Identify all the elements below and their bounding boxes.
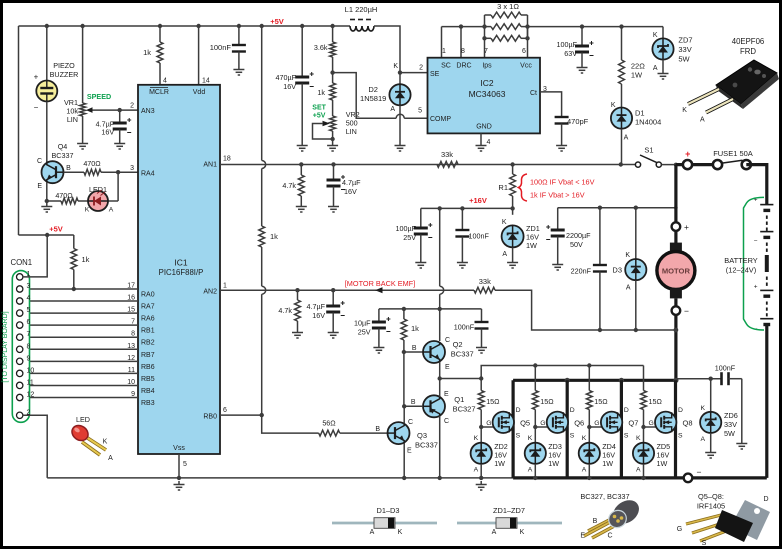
svg-text:(12–24V): (12–24V)	[726, 266, 756, 275]
wire piezo to Q4 collector	[46, 102, 48, 164]
svg-text:16V: 16V	[283, 82, 296, 91]
CON1 pin 10	[17, 370, 23, 376]
wire +16V to Q2 collector	[439, 208, 441, 286]
svg-text:−: −	[754, 238, 758, 245]
junction rail/RB0 pullup	[260, 24, 264, 28]
svg-text:Q5–Q8:: Q5–Q8:	[698, 492, 724, 501]
svg-text:4: 4	[27, 295, 31, 302]
junction ZD5/bus	[641, 476, 645, 480]
resistor 4.7k (AN2)	[295, 300, 301, 321]
resistor 1k (RA0 pullup)	[71, 249, 77, 270]
svg-text:3: 3	[27, 283, 31, 290]
capacitor 470uF 16V	[295, 77, 309, 83]
capacitor 4.7uF 16V (AN3)	[113, 123, 127, 129]
svg-text:COMP: COMP	[430, 116, 451, 123]
wire hop over D2 anode	[396, 114, 404, 118]
svg-text:A: A	[626, 285, 631, 292]
junction DRC	[459, 24, 463, 28]
wire CON1 to RB2	[23, 336, 138, 338]
junction ZD4/bus	[587, 476, 591, 480]
svg-text:22Ω: 22Ω	[631, 62, 645, 71]
svg-text:1: 1	[223, 283, 227, 290]
svg-text:Q5: Q5	[520, 419, 530, 428]
svg-text:A: A	[636, 467, 641, 474]
ground 100nF Vdd	[233, 66, 244, 75]
svg-text:4: 4	[487, 139, 491, 146]
transistor Q8 IRF1405	[655, 412, 676, 433]
wire driver supply row	[379, 308, 482, 310]
ground 10uF	[373, 344, 384, 353]
svg-text:RB0: RB0	[203, 413, 217, 420]
svg-text:S1: S1	[644, 146, 653, 155]
svg-text:A: A	[108, 455, 113, 462]
svg-text:PIEZO: PIEZO	[53, 61, 75, 70]
junction rail/22R	[619, 24, 623, 28]
junction gate bus	[479, 376, 483, 380]
wire Vdd stub	[198, 26, 200, 85]
svg-text:2200µF: 2200µF	[566, 231, 591, 240]
wire +5V to CON1/1k	[19, 234, 74, 236]
CON1 pin 8	[17, 346, 23, 352]
svg-text:K: K	[636, 435, 641, 442]
svg-text:C: C	[37, 158, 42, 165]
zener ZD1 16V 1W	[502, 225, 524, 247]
svg-text:3 x 1Ω: 3 x 1Ω	[497, 2, 519, 11]
svg-text:2: 2	[419, 65, 423, 72]
wire left +5V drop	[18, 26, 20, 235]
svg-text:A: A	[700, 436, 705, 443]
svg-text:Q7: Q7	[628, 419, 638, 428]
svg-text:3.6k: 3.6k	[314, 43, 328, 52]
ground VR1	[77, 140, 88, 149]
zener ZD2 16V 1W	[471, 443, 492, 464]
wire 4.7uF top	[119, 110, 121, 123]
svg-text:G: G	[594, 420, 599, 427]
transistor Q4 BC337	[42, 161, 64, 183]
svg-text:K: K	[653, 32, 658, 39]
wire gate to Q5	[481, 426, 494, 428]
resistor 1k (divider)	[330, 83, 336, 100]
junction gate Q6	[533, 425, 537, 429]
junction D1/S1	[619, 162, 623, 166]
svg-text:PIC16F88I/P: PIC16F88I/P	[159, 268, 204, 277]
ground Q4 emitter	[41, 203, 52, 212]
svg-text:16V: 16V	[101, 128, 114, 137]
wire Q3 E down	[403, 443, 405, 478]
wire motor - down	[674, 315, 677, 380]
resistor 1R b	[491, 24, 521, 30]
junction R1/ZD1/+16V	[510, 206, 514, 210]
wire Q1 base	[404, 405, 422, 407]
wire VR2 wiper loop	[313, 124, 333, 140]
junction rail/VR1	[80, 24, 84, 28]
svg-text:LIN: LIN	[346, 127, 357, 136]
svg-text:B: B	[593, 518, 598, 525]
resistor 1k (driver)	[401, 319, 407, 340]
wire CON1 to RB6	[23, 360, 138, 362]
svg-text:K: K	[520, 529, 525, 536]
svg-text:−: −	[684, 306, 689, 316]
junction ZD3/bus	[533, 476, 537, 480]
svg-text:−: −	[34, 103, 39, 112]
svg-text:A: A	[624, 135, 629, 142]
svg-text:AN3: AN3	[141, 108, 155, 115]
wire D2 anode to ground	[399, 105, 401, 142]
svg-text:BUZZER: BUZZER	[50, 70, 79, 79]
svg-text:100µF: 100µF	[556, 40, 577, 49]
svg-text:10: 10	[27, 367, 35, 374]
LED LED1	[88, 190, 108, 211]
svg-text:+: +	[34, 73, 39, 82]
svg-text:[TO DISPLAY BOARD]: [TO DISPLAY BOARD]	[2, 311, 9, 382]
svg-text:4.7k: 4.7k	[282, 181, 296, 190]
svg-text:RB2: RB2	[141, 340, 155, 347]
ground MOSFET bank	[476, 481, 487, 490]
wire CON1 to RB1	[23, 324, 138, 326]
svg-text:16V: 16V	[312, 311, 325, 320]
svg-text:100nF: 100nF	[210, 43, 232, 52]
label R1 value brace	[519, 174, 528, 201]
wire VR1 top	[82, 26, 84, 103]
svg-text:S: S	[624, 433, 629, 440]
transistor Q5 IRF1405	[493, 412, 514, 433]
svg-text:G: G	[486, 420, 491, 427]
svg-text:A: A	[492, 529, 497, 536]
svg-text:100Ω IF Vbat < 16V: 100Ω IF Vbat < 16V	[530, 178, 595, 187]
junction RB0/pullup	[260, 413, 264, 417]
wire LED1 anode branch	[117, 172, 119, 201]
svg-text:33V: 33V	[678, 45, 691, 54]
inductor L1	[350, 20, 374, 32]
svg-text:B: B	[66, 165, 71, 172]
svg-text:5W: 5W	[724, 429, 735, 438]
svg-text:+: +	[684, 222, 689, 232]
svg-text:MOTOR: MOTOR	[662, 267, 691, 276]
svg-text:2: 2	[130, 103, 134, 110]
svg-text:C: C	[607, 533, 612, 540]
ground 100nF driver	[476, 344, 487, 353]
wire piezo top	[46, 26, 48, 81]
svg-text:C: C	[444, 418, 449, 425]
wire hop over AN1	[262, 161, 266, 169]
svg-text:E: E	[37, 183, 42, 190]
svg-text:DRC: DRC	[456, 63, 471, 70]
CON1 pin 7	[17, 334, 23, 340]
wire D-S Q6	[566, 380, 569, 478]
svg-text:470pF: 470pF	[567, 117, 589, 126]
svg-text:K: K	[582, 435, 587, 442]
wire 100nF top	[238, 26, 240, 45]
resistor 15R (Q8 gate)	[641, 391, 647, 410]
svg-text:LED1: LED1	[89, 185, 107, 194]
resistor 56R	[319, 430, 340, 436]
svg-text:25V: 25V	[403, 233, 416, 242]
svg-text:B: B	[412, 345, 417, 352]
wire snubber to ground	[741, 379, 743, 440]
svg-text:AN2: AN2	[203, 289, 217, 296]
connector CON1	[12, 271, 29, 423]
svg-text:Q4: Q4	[58, 142, 68, 151]
wire gate to Q7	[589, 426, 603, 428]
resistor 1R c	[491, 35, 521, 41]
wire Ct to 470pF	[540, 92, 562, 117]
svg-text:R1: R1	[498, 183, 508, 192]
wire CON1 to RA0	[23, 288, 138, 290]
capacitor 4.7uF 16V (AN1)	[327, 180, 341, 186]
ground 100nF +16V	[457, 259, 468, 268]
svg-text:FUSE1 50A: FUSE1 50A	[713, 149, 753, 158]
fuse FUSE1 50A	[676, 163, 718, 166]
junction 4.7uF AN2	[331, 288, 335, 292]
wire motor+ rail	[558, 207, 676, 209]
svg-text:D: D	[763, 496, 768, 503]
wire ZD1 cathode	[512, 208, 514, 214]
motor M1	[670, 243, 682, 253]
resistor 4.7k (AN1)	[298, 175, 304, 196]
wire D-S Q8	[674, 380, 677, 478]
capacitor 100nF (snubber)	[722, 372, 729, 385]
motor - terminal	[672, 306, 681, 315]
wire D-S Q5	[511, 380, 514, 478]
ground 100uF 63V	[577, 64, 588, 73]
piezo buzzer	[36, 81, 57, 102]
wire fuse to battery +	[746, 165, 767, 198]
wire CON1 to RA6	[23, 312, 138, 314]
svg-text:6: 6	[522, 48, 526, 55]
svg-text:SET: SET	[312, 105, 326, 112]
svg-text:Vss: Vss	[173, 445, 185, 452]
wire 3.6k top	[332, 26, 334, 42]
svg-text:16V: 16V	[344, 187, 357, 196]
wire L1 to switch node	[374, 26, 400, 73]
capacitor 2200uF 50V	[551, 230, 565, 236]
svg-text:470Ω: 470Ω	[55, 191, 73, 200]
CON1 pin 3	[17, 286, 23, 292]
wire IC2 GND stub	[480, 133, 482, 142]
wire DRC pin stub	[460, 27, 462, 58]
resistor R1	[510, 174, 516, 196]
svg-text:SC: SC	[441, 63, 451, 70]
svg-text:50V: 50V	[570, 240, 583, 249]
svg-text:ZD7: ZD7	[678, 36, 692, 45]
junction ZD2/bus	[479, 476, 483, 480]
CON1 pin 1	[17, 274, 23, 280]
wire D-S Q7	[620, 380, 623, 478]
wire hop over AN2	[262, 286, 266, 294]
junction divider tap	[330, 70, 334, 74]
svg-text:6: 6	[27, 319, 31, 326]
svg-text:BC327, BC337: BC327, BC337	[580, 492, 629, 501]
svg-text:LED: LED	[76, 415, 90, 424]
svg-text:+: +	[685, 149, 690, 159]
svg-text:1k: 1k	[317, 88, 325, 97]
ground ZD7	[658, 70, 669, 79]
svg-text:D1: D1	[635, 109, 645, 118]
svg-text:Q1: Q1	[454, 395, 464, 404]
wire 15R Q5 top	[480, 379, 482, 391]
svg-text:1k: 1k	[270, 232, 278, 241]
wire Q2 E down	[439, 362, 441, 379]
junction Q2 C row	[438, 307, 442, 311]
wire VR1 bottom	[82, 116, 84, 140]
wire CON1 pin1 to +5V	[23, 235, 47, 277]
svg-text:4.7µF: 4.7µF	[342, 178, 361, 187]
transistor Q7 IRF1405	[601, 412, 622, 433]
capacitor 100nF (+16V)	[455, 230, 469, 237]
resistor 22R 1W	[619, 60, 625, 84]
wire D3 cathode	[635, 208, 637, 259]
svg-text:56Ω: 56Ω	[322, 419, 336, 428]
svg-text:K: K	[682, 107, 687, 114]
junction VR2 wiper/bottom	[330, 137, 334, 141]
svg-text:−: −	[697, 467, 702, 477]
CON1 pin 11	[17, 382, 23, 388]
svg-text:1k: 1k	[82, 255, 90, 264]
wire gate to Q8	[644, 426, 658, 428]
svg-text:CON1: CON1	[10, 258, 32, 267]
svg-text:S: S	[570, 433, 575, 440]
svg-text:[MOTOR BACK EMF]: [MOTOR BACK EMF]	[345, 279, 415, 288]
battery - terminal	[684, 474, 693, 483]
wire Q4 emitter down	[46, 182, 48, 201]
junction 1k/RA0	[72, 287, 76, 291]
ground 4.7uF AN3	[114, 140, 125, 149]
svg-text:D: D	[678, 407, 683, 414]
wire 100nF Q2 top	[481, 309, 483, 322]
svg-text:BATTERY: BATTERY	[724, 256, 757, 265]
svg-text:E: E	[444, 391, 449, 398]
wire 100uF25V top	[420, 208, 422, 228]
legend D1-D3 pictorial	[332, 522, 437, 525]
svg-text:K: K	[502, 219, 507, 226]
capacitor 4.7uF 16V (AN2)	[326, 306, 340, 312]
junction drain Q7	[619, 378, 624, 383]
junction Q1 C/bus	[438, 476, 442, 480]
back-emf arrow	[375, 287, 383, 293]
svg-text:MC34063: MC34063	[469, 89, 506, 99]
svg-text:4.7k: 4.7k	[278, 306, 292, 315]
capacitor 100nF (Vdd)	[232, 45, 246, 52]
svg-text:K: K	[700, 405, 705, 412]
resistor 470ohm (Q4 base)	[84, 169, 101, 175]
wire +5V top rail	[19, 25, 351, 27]
svg-text:7: 7	[27, 331, 31, 338]
svg-text:RB1: RB1	[141, 328, 155, 335]
svg-text:RA0: RA0	[141, 292, 155, 299]
junction 4.7k AN1	[299, 162, 303, 166]
junction 4.7uF AN1	[331, 162, 335, 166]
svg-text:IC2: IC2	[480, 78, 494, 88]
svg-text:MCLR: MCLR	[149, 89, 169, 96]
wire Q4 E to 470ohm	[47, 200, 61, 202]
junction gate Q5	[479, 425, 483, 429]
CON1 pin 6	[17, 322, 23, 328]
resistor 1R a	[491, 12, 521, 18]
ground ZD1	[507, 259, 518, 268]
CON1 pin 2	[17, 412, 23, 418]
svg-text:A: A	[528, 467, 533, 474]
svg-text:5: 5	[183, 461, 187, 468]
wire RA4 to 470ohm	[103, 171, 138, 173]
junction R1 top	[510, 162, 514, 166]
junction 220nF bottom	[598, 328, 602, 332]
svg-text:14: 14	[202, 78, 210, 85]
svg-text:A: A	[474, 467, 479, 474]
legend TO-92 pictorial	[584, 495, 643, 538]
svg-text:ZD6: ZD6	[724, 411, 738, 420]
junction rail/MCLR 1k	[158, 24, 162, 28]
junction gate Q6	[533, 363, 537, 367]
svg-text:470Ω: 470Ω	[83, 159, 101, 168]
junction Q3 E/bus	[402, 476, 406, 480]
svg-text:1k IF Vbat > 16V: 1k IF Vbat > 16V	[530, 191, 585, 200]
svg-text:15Ω: 15Ω	[594, 397, 608, 406]
wire 1R left stub	[484, 15, 486, 38]
potentiometer VR2 500 LIN	[330, 116, 336, 131]
svg-text:63V: 63V	[564, 49, 577, 58]
wire RB0 pullup lower	[261, 294, 263, 415]
wire 220nF top	[599, 208, 601, 265]
svg-text:3: 3	[130, 165, 134, 172]
wire CON1 to RB7	[23, 348, 138, 350]
wire to Q2 C	[439, 294, 441, 341]
battery BATTERY 12-24V	[765, 198, 768, 205]
svg-text:D: D	[570, 407, 575, 414]
svg-text:D2: D2	[368, 85, 378, 94]
wire switch to motor +	[674, 165, 677, 223]
junction rail/piezo	[45, 24, 49, 28]
svg-text:8: 8	[461, 48, 465, 55]
wire snubber row	[676, 378, 722, 380]
wire RB0 to 56R	[262, 415, 319, 433]
svg-text:1: 1	[442, 48, 446, 55]
wire Q3 C up	[403, 406, 405, 423]
ground 100uF 25V	[415, 259, 426, 268]
svg-text:D1–D3: D1–D3	[376, 506, 399, 515]
svg-text:RA4: RA4	[141, 171, 155, 178]
svg-text:RB6: RB6	[141, 364, 155, 371]
VR1 wiper arrow	[90, 109, 139, 111]
svg-text:B: B	[411, 399, 416, 406]
ground ZD6	[705, 449, 716, 458]
junction motor+/vertical	[674, 206, 678, 210]
wire 15R Q7 top	[588, 366, 590, 391]
ground IC2	[476, 142, 487, 151]
wire ZD7 cathode	[662, 27, 664, 39]
svg-text:E: E	[580, 533, 585, 540]
junction gate Q8	[641, 425, 645, 429]
svg-text:4.7µF: 4.7µF	[306, 302, 325, 311]
svg-text:1W: 1W	[526, 241, 537, 250]
junction drain Q8	[673, 378, 678, 383]
switch S1	[635, 162, 640, 167]
svg-text:BC327: BC327	[453, 405, 476, 414]
junction S1/thick corner	[674, 163, 678, 167]
resistor 470ohm (LED1)	[61, 198, 78, 204]
svg-text:220nF: 220nF	[571, 267, 592, 276]
svg-text:L1 220µH: L1 220µH	[345, 5, 378, 14]
zener ZD4 16V 1W	[579, 443, 600, 464]
svg-text:5: 5	[418, 108, 422, 115]
svg-text:5: 5	[27, 307, 31, 314]
svg-text:BC337: BC337	[52, 151, 74, 160]
resistor 15R (Q5 gate)	[478, 391, 484, 410]
svg-text:15Ω: 15Ω	[649, 397, 663, 406]
junction ZD6 top	[709, 377, 713, 381]
svg-text:FRD: FRD	[740, 47, 756, 56]
capacitor 220nF	[593, 265, 607, 272]
zener ZD3 16V 1W	[525, 443, 546, 464]
